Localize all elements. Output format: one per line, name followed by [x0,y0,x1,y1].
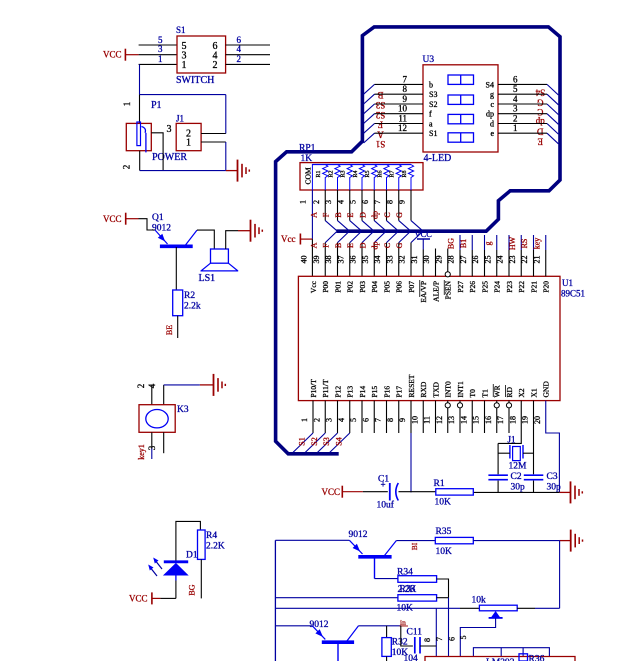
svg-text:1: 1 [299,200,308,204]
svg-text:R8: R8 [402,170,408,177]
svg-text:16: 16 [484,416,493,424]
wire RP1 pin1 COM to U1 Vcc [311,164,313,190]
svg-text:GND: GND [542,381,551,398]
wire U1 pin29 stub with PSEN bubble [447,249,449,272]
wire RP1 pin 5 down [361,190,363,221]
svg-text:BE: BE [165,325,174,335]
svg-text:F: F [322,243,331,248]
wire RP1 pin 6 down [373,190,375,221]
bus entry RP1 pin 4 [350,221,361,231]
svg-text:7: 7 [373,200,382,204]
bus entry U3 pin 4 [547,104,558,115]
svg-text:P21: P21 [529,281,538,293]
capacitor C3 30p [524,474,544,476]
svg-text:1: 1 [158,54,163,64]
wire U1 pin 19 X1 to crystal [533,401,535,475]
svg-text:F: F [378,120,383,130]
power port VCC (S1 pin 3) [124,49,126,61]
overline EA/VP [419,280,421,297]
svg-text:10uf: 10uf [377,500,395,511]
svg-text:7: 7 [374,418,383,422]
svg-text:dp: dp [371,211,380,219]
wire Q2 emitter rail [275,539,349,541]
wire U1 pin 35 [373,243,375,277]
wire U1 pin 3 (S3) [337,401,339,433]
svg-text:G: G [395,212,404,218]
svg-text:PSEN: PSEN [444,280,453,299]
svg-text:9: 9 [398,200,407,204]
svg-text:C1: C1 [378,475,389,485]
svg-text:LS1: LS1 [199,273,216,284]
wire U1 pin 26 stub [484,235,486,250]
wire U1 pin 1 (S1) [312,401,314,433]
overline WR [492,384,494,397]
svg-text:S2: S2 [429,100,437,109]
svg-text:Vcc: Vcc [281,234,296,244]
wire pot right [517,607,535,609]
wire VCC to Q1 emitter [139,219,156,230]
bus entry U3 pin 5 [547,94,558,105]
bus entry RP1 pin 9 [411,221,422,231]
wire RP1 pin 7 down [386,190,388,221]
svg-text:R3: R3 [341,170,347,177]
svg-text:R7: R7 [390,170,396,177]
svg-text:19: 19 [521,416,530,424]
svg-text:1: 1 [122,102,132,107]
wire ground rail of P1/J1 [140,170,226,172]
svg-text:B: B [334,243,343,248]
wire S1 pin1 stub [139,63,177,65]
svg-text:4: 4 [336,200,345,204]
svg-text:6: 6 [513,74,518,84]
svg-text:VCC: VCC [129,594,148,604]
wire U1 pin 37 [349,243,351,277]
bus entry to U1 pin 37 [350,232,361,243]
svg-text:3: 3 [147,445,157,450]
wire IC pin5 bridge [473,648,549,657]
svg-text:K3: K3 [177,405,189,415]
svg-text:S1: S1 [376,139,386,149]
svg-text:C: C [537,107,543,117]
wire U1 pin 12 stub with bubble [447,401,449,433]
svg-text:31: 31 [410,256,419,264]
svg-text:9012: 9012 [310,620,329,630]
wire Q1 base down [175,247,177,290]
wire U3 pin 7 [375,83,424,85]
svg-text:R33: R33 [400,585,416,595]
svg-text:P02: P02 [346,281,355,293]
wire U3 pin 4 [498,103,547,105]
svg-text:30p: 30p [511,483,526,493]
power port VCC (D1) [151,592,153,604]
resistor element R5 in RP1 [372,165,377,191]
wire Q3 base down [337,642,339,661]
op-amp IC LM393 (bottom, cut off) [425,657,575,661]
wire Q1 collector to LS1 [197,230,214,249]
svg-text:C3: C3 [547,472,558,482]
svg-text:VCC: VCC [103,214,122,224]
wire U1 pin 11 stub [435,401,437,433]
wire U1 pin 22 stub [533,235,535,250]
svg-text:G: G [395,242,404,248]
svg-text:BG: BG [447,238,456,249]
wire U1 pin 34 [386,243,388,277]
svg-text:A: A [309,212,318,218]
svg-text:U3: U3 [423,55,435,65]
svg-text:10k: 10k [472,596,487,606]
svg-text:1: 1 [300,418,309,422]
svg-text:P25: P25 [480,281,489,293]
bus entry to U1 pin 39 [325,232,336,243]
wire U1 pin 28 stub [459,235,461,250]
svg-text:1: 1 [186,138,191,149]
transistor Q1 (9012 PNP) [155,230,168,244]
RP1 common bus bar [312,164,411,166]
svg-text:D: D [537,127,544,137]
svg-text:BG: BG [188,584,197,595]
svg-text:e: e [490,129,494,138]
svg-text:c: c [490,100,494,109]
wire U3 pin 1 [498,132,547,134]
svg-text:A: A [377,129,384,139]
bus entry RP1 pin 2 [325,221,336,231]
svg-text:J1: J1 [508,435,516,445]
bus entry U3 pin 9 [364,104,375,114]
svg-text:C2: C2 [511,472,522,482]
wire RP1 pin 3 down [337,190,339,221]
svg-text:E: E [346,243,355,248]
svg-text:dp: dp [371,242,380,250]
svg-text:1: 1 [513,123,518,133]
svg-text:POWER: POWER [152,152,187,163]
svg-text:13: 13 [447,416,456,424]
svg-text:17: 17 [496,416,505,424]
svg-text:R1: R1 [316,170,322,177]
wire U1 pin 16 stub with bubble [496,401,498,433]
svg-text:30p: 30p [547,483,562,493]
svg-text:2: 2 [237,54,242,64]
svg-text:RD: RD [505,386,514,397]
wire Q2 base to R34 [374,557,376,579]
switch S1 [177,36,226,73]
wire U1 pin 13 stub with bubble [459,401,461,433]
svg-text:15: 15 [472,416,481,424]
wire S1 pin3 stub [139,54,177,56]
bus entry RP1 pin 7 [387,221,398,231]
svg-text:BI: BI [410,542,419,550]
svg-text:a: a [429,120,433,129]
wire U1 pin 6 stub [373,401,375,433]
svg-text:3: 3 [325,418,334,422]
microcontroller U1 89C51 [298,276,560,400]
svg-text:D: D [358,242,367,248]
svg-text:2: 2 [312,200,321,204]
wire U1 pin 27 stub [471,235,473,250]
bus entry U3 pin 10 [364,114,375,124]
bus entry RP1 pin 3 [338,221,349,231]
wire Q3 emitter rail [275,625,312,627]
svg-text:P01: P01 [333,281,342,293]
svg-text:7: 7 [403,74,408,84]
svg-text:D: D [358,212,367,218]
bus entry U3 pin 6 [547,84,558,95]
svg-text:2: 2 [213,60,218,71]
wire U1 pin 18 X2 to crystal [498,401,521,444]
svg-text:1: 1 [182,60,187,71]
wire U1 pin 7 stub [386,401,388,433]
bus entry to U1 pin 38 [338,232,349,243]
wire U1 pin 9 RESET down [410,401,412,433]
svg-text:40: 40 [300,256,309,264]
wire U1 pin 36 [361,243,363,277]
svg-text:TXD: TXD [431,382,440,398]
wire pot row [275,607,460,609]
svg-text:G: G [537,97,544,107]
bus entry to U1 pin 35 [374,232,385,243]
svg-text:S4: S4 [486,80,494,89]
svg-text:10K: 10K [436,547,453,557]
speaker LS1 [211,249,229,263]
svg-text:36: 36 [349,256,358,264]
svg-text:12M: 12M [509,462,528,472]
svg-text:P14: P14 [358,386,367,398]
svg-text:INT1: INT1 [456,381,465,397]
svg-text:20: 20 [533,416,542,424]
svg-text:P11/T: P11/T [321,379,330,397]
svg-text:F: F [322,212,331,217]
svg-text:S1: S1 [176,25,186,35]
svg-text:HW: HW [508,236,517,250]
svg-text:18: 18 [508,416,517,424]
wire IC pin8 vertical [435,608,437,656]
svg-text:8: 8 [385,200,394,204]
ground (LS1) [238,230,250,232]
wire U1 pin 14 stub [471,401,473,433]
svg-text:4: 4 [237,44,242,54]
wire P1 loop top [140,94,226,96]
svg-text:B: B [334,212,343,217]
wire U1 pin30 stub [435,249,437,277]
wire U1 pin 25 stub [496,235,498,250]
svg-text:P23: P23 [505,281,514,293]
wire K3 pin3 stub [163,432,165,453]
svg-text:89C51: 89C51 [561,289,585,299]
svg-text:P1: P1 [151,100,162,111]
wire U1 pin 24 stub [508,235,510,250]
svg-text:P10/T: P10/T [309,379,318,398]
wire U3 pin 9 [375,103,424,105]
svg-text:S3: S3 [429,90,437,99]
svg-text:38: 38 [324,256,333,264]
wire oscillator ground rail [473,491,559,493]
svg-text:T1: T1 [480,389,489,398]
ground (P1) [226,170,237,172]
svg-text:R6: R6 [377,170,383,177]
power port VCC (Q1 emitter) [125,213,127,225]
svg-text:C: C [383,212,392,217]
svg-text:4: 4 [337,418,346,422]
svg-text:WR: WR [493,385,502,397]
svg-text:B: B [377,90,383,100]
wire U3 pin 3 [498,113,547,115]
wire U1 pin 17 stub with bubble [508,401,510,433]
svg-text:8: 8 [403,84,408,94]
wire Q2 collector to R35 [396,540,435,542]
svg-text:9: 9 [398,418,407,422]
svg-text:4: 4 [147,383,157,388]
svg-text:8: 8 [423,638,432,642]
svg-text:P17: P17 [395,386,404,398]
wire J1 pin1 down [225,142,227,171]
wire U1 pin 39 [324,243,326,277]
node K3 pin 4 to ground [163,385,165,405]
bus entry to U1 pin 34 [387,232,398,243]
wire U3 pin 11 [375,123,424,125]
svg-text:9012: 9012 [152,224,171,234]
wire U1 pin 20 GND [546,401,560,493]
wire U3 pin 12 [375,132,424,134]
bus entry S4 [330,433,350,452]
svg-text:VCC: VCC [103,50,122,60]
svg-text:S4: S4 [535,88,545,98]
svg-text:S2: S2 [310,437,319,445]
wire R4 to net BG [200,559,202,598]
wire S1 pin5 stub [139,44,177,46]
wire K3 pin1 (key1) [151,432,153,448]
svg-text:11: 11 [398,114,407,124]
svg-text:COM: COM [304,167,313,184]
bus entry U3 pin 3 [547,114,558,125]
svg-text:R2: R2 [328,170,334,177]
svg-text:RXD: RXD [419,381,428,397]
resistor element R3 in RP1 [347,165,352,191]
svg-text:32: 32 [398,256,407,264]
svg-text:U1: U1 [562,278,573,288]
svg-text:d: d [490,120,494,129]
svg-text:dp: dp [486,110,494,119]
bus entry RP1 pin 6 [374,221,385,231]
ground (K3) [213,374,215,396]
svg-text:B1: B1 [459,239,468,248]
wire RP1 pin 9 down [410,190,412,221]
svg-text:4-LED: 4-LED [424,153,452,164]
svg-text:33: 33 [385,256,394,264]
wire left rail (amp) [274,540,276,661]
bus entry U3 pin 2 [547,124,558,135]
svg-text:8: 8 [386,418,395,422]
svg-text:P03: P03 [358,281,367,293]
bus entry U3 pin 8 [364,94,375,104]
wire U1 pin 23 stub [520,235,522,250]
svg-text:R4: R4 [206,531,217,541]
svg-text:X1: X1 [529,388,538,397]
wire J1 pin2 stub [201,133,226,135]
svg-text:S1: S1 [429,129,437,138]
svg-text:12: 12 [398,123,407,133]
wire S1.1 to P1.1 [139,64,141,94]
wire U1 pin 10 stub [422,401,424,433]
resistor R36 [519,654,528,661]
svg-text:5: 5 [513,84,518,94]
wire U3 pin 8 [375,93,424,95]
wire U3 pin 5 [498,93,547,95]
pushbutton K3 [139,405,175,433]
svg-text:P16: P16 [382,386,391,398]
wire J1.2 vertical [225,95,227,134]
bus entry U3 pin 1 [547,133,558,144]
svg-text:VCC: VCC [322,487,341,497]
svg-text:E: E [346,212,355,217]
wire S1 pin4 stub [226,54,270,56]
svg-text:VCC: VCC [415,229,433,239]
resistor R32 10K [386,626,388,638]
svg-text:Q1: Q1 [152,213,164,223]
wire U1 pin 33 [398,243,400,277]
power port VCC (C1) [341,486,343,498]
svg-text:3: 3 [324,200,333,204]
svg-text:S4: S4 [334,437,343,445]
svg-text:39: 39 [312,256,321,264]
bus (display data bus) [276,27,560,454]
svg-text:INT0: INT0 [444,381,453,397]
svg-text:3: 3 [513,104,518,114]
resistor element R1 in RP1 [323,165,328,191]
wire U1 pin 4 (S4) [349,401,351,433]
svg-text:EA/VP: EA/VP [419,281,428,303]
wire VCC to C1 [363,491,388,493]
wire K3 pin2 stub [151,385,153,405]
wire S1 pin6 stub [226,44,270,46]
resistor element R8 in RP1 [408,165,413,191]
wire D1 anode to VCC [175,576,177,581]
svg-text:P12: P12 [333,386,342,398]
svg-text:key1: key1 [137,444,146,460]
wire Vcc to U1 pin 40 [311,239,313,276]
wire node to IC pin7 [448,598,450,657]
svg-text:P07: P07 [407,281,416,293]
wire R2 to net BE [177,316,179,338]
svg-text:2.2K: 2.2K [206,542,225,552]
wire LS1 to ground [226,231,238,249]
svg-text:37: 37 [336,256,345,264]
svg-text:10K: 10K [435,498,452,508]
svg-text:6: 6 [361,418,370,422]
wire ground rail down to pot [559,541,561,609]
wire J1 pin1 stub [201,141,226,143]
svg-text:R2: R2 [184,291,195,301]
svg-text:S3: S3 [322,437,331,445]
svg-text:P27: P27 [456,281,465,293]
capacitor C2 30p [488,474,508,476]
svg-text:12: 12 [435,416,444,424]
svg-text:X2: X2 [517,388,526,397]
svg-text:R4: R4 [353,170,359,177]
svg-text:P05: P05 [382,281,391,293]
svg-text:104: 104 [404,654,419,661]
wire U3 pin 2 [498,123,547,125]
bus entry RP1 pin 8 [399,221,410,231]
bus entry RP1 pin 5 [362,221,373,231]
svg-text:P13: P13 [346,386,355,398]
resistor R4 2.2K [198,530,206,559]
svg-text:2: 2 [136,384,146,389]
bus entry to U1 pin 32 [411,232,422,243]
svg-text:RP1: RP1 [299,144,316,154]
wire RP1 pin 8 down [398,190,400,221]
svg-text:7: 7 [435,637,444,641]
svg-text:P06: P06 [395,281,404,293]
svg-text:g: g [490,90,494,99]
